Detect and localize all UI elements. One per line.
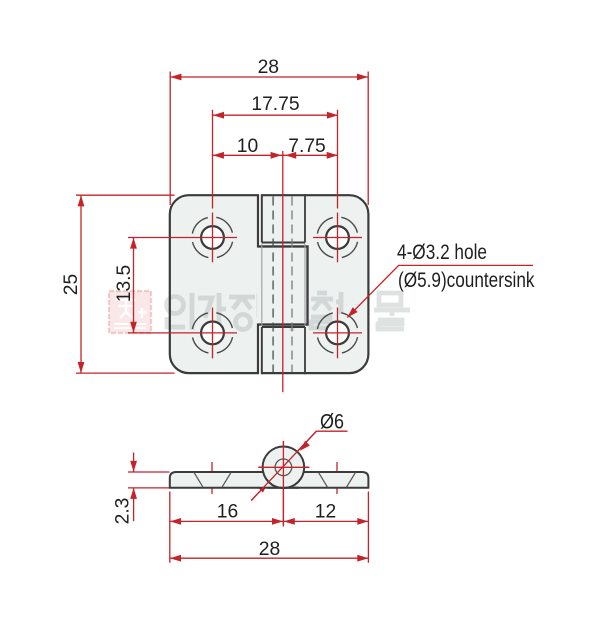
svg-text:28: 28	[259, 539, 280, 560]
svg-text:7.75: 7.75	[288, 136, 326, 157]
svg-text:(Ø5.9)countersink: (Ø5.9)countersink	[398, 269, 535, 292]
arrow 13.5 bottom	[130, 322, 137, 333]
dim 28 bottom line	[170, 557, 368, 559]
red dimension graphics bottom view	[128, 431, 368, 563]
knuckle band inner horizontal edges	[262, 243, 305, 328]
arrow 13.5 top	[130, 238, 137, 249]
svg-text:17.75: 17.75	[251, 94, 299, 115]
glyph 물	[374, 293, 410, 329]
pin centerline	[282, 151, 284, 392]
bottom extension lines	[170, 492, 369, 563]
arrow 28b left	[170, 555, 181, 562]
arrow 16 left	[170, 518, 181, 525]
dim 28 extension lines	[170, 72, 368, 206]
dia 6 leader	[251, 431, 347, 500]
arrow 12 right	[357, 518, 368, 525]
bottom-right hole vertical crosshair	[337, 308, 339, 359]
redraw side red centerlines above circle	[251, 431, 316, 526]
arrow 12 left	[284, 518, 295, 525]
svg-text:2.3: 2.3	[113, 498, 134, 525]
arrow 7.75 right	[327, 152, 338, 159]
svg-text:12: 12	[315, 502, 336, 523]
arrow 28 left	[170, 74, 181, 81]
arrow 10 right	[271, 152, 282, 159]
arrow 7.75 left	[285, 152, 296, 159]
knuckle band left edge segments	[261, 194, 263, 374]
arrow 17.75 left	[213, 112, 224, 119]
svg-text:10: 10	[237, 136, 258, 157]
svg-text:16: 16	[217, 502, 238, 523]
dimension texts	[61, 57, 344, 560]
dim 2.3 arrow lines	[133, 453, 135, 522]
svg-text:13.5: 13.5	[114, 265, 135, 303]
central knuckle re-fill	[257, 248, 306, 324]
dim 25 extension lines	[76, 195, 175, 373]
glyph 가	[198, 293, 226, 330]
knuckle pin hole inner	[275, 459, 292, 476]
glyph 철	[311, 292, 341, 328]
label hole note	[397, 241, 535, 292]
dim 13.5 extensions merged with left hole crosshairs	[128, 238, 237, 333]
bend thin lines through central knuckle	[262, 244, 305, 326]
svg-text:28: 28	[258, 57, 279, 78]
side view strip	[170, 472, 369, 488]
countersink section diagonals	[194, 472, 356, 487]
left leaf with central knuckle (fill)	[170, 195, 308, 373]
arrow 2.3 lower	[130, 488, 137, 499]
hidden pin hole dashed lines	[272, 197, 274, 373]
dim 2.3 extensions	[128, 472, 170, 488]
arrow 16 right	[272, 518, 283, 525]
dim 13.5 line	[133, 238, 135, 333]
arrow 17.75 right	[327, 112, 338, 119]
dim 16 / 12 line	[170, 520, 368, 522]
right leaf outline	[262, 195, 369, 373]
arrow 2.3 upper	[130, 461, 137, 472]
knuckle circle outer	[263, 447, 305, 489]
arrow 25 top	[78, 195, 85, 206]
red dimension graphics top view	[76, 72, 533, 393]
dim 28 top line	[170, 76, 368, 78]
bottom-left hole vertical crosshair	[212, 308, 214, 359]
svg-text:4-Ø3.2 hole: 4-Ø3.2 hole	[397, 241, 487, 264]
hole bottom-left	[192, 312, 233, 353]
svg-text:Ø6: Ø6	[320, 411, 344, 434]
dim 17.75 line	[213, 114, 338, 116]
glyph 장	[229, 293, 266, 330]
glyph 식	[268, 292, 292, 331]
arrow leader countersink	[347, 307, 357, 317]
arrow 10 left	[213, 152, 224, 159]
hole column centerline extensions	[213, 110, 338, 263]
arrow 28b right	[357, 555, 368, 562]
arrow 28 right	[357, 74, 368, 81]
glyph 인	[167, 293, 193, 330]
hole top-right	[317, 217, 358, 258]
side view hole centerlines	[212, 462, 337, 494]
arrow dia6 upper	[300, 441, 310, 451]
svg-text:25: 25	[61, 274, 82, 295]
hole bottom-right	[317, 312, 358, 353]
strip bottom edge across knuckle	[268, 487, 299, 489]
arrow 25 bottom	[78, 362, 85, 373]
watermark hangul glyphs	[167, 292, 411, 331]
arrow dia6 lower	[258, 482, 268, 492]
dim 25 line	[80, 195, 82, 373]
dim 10 / 7.75 line	[213, 154, 338, 156]
right leaf with knuckle band (fill)	[262, 195, 369, 373]
arrowheads red	[78, 74, 369, 562]
left leaf outline	[170, 195, 308, 373]
hole top-left	[192, 217, 233, 258]
leader line to countersink	[347, 265, 533, 317]
right holes horizontal crosshairs	[313, 238, 362, 333]
knuckle circle crosshair	[258, 441, 309, 526]
watermark seal box	[109, 291, 151, 333]
knuckle band right edge segments	[304, 194, 306, 374]
central knuckle outline	[258, 247, 308, 325]
